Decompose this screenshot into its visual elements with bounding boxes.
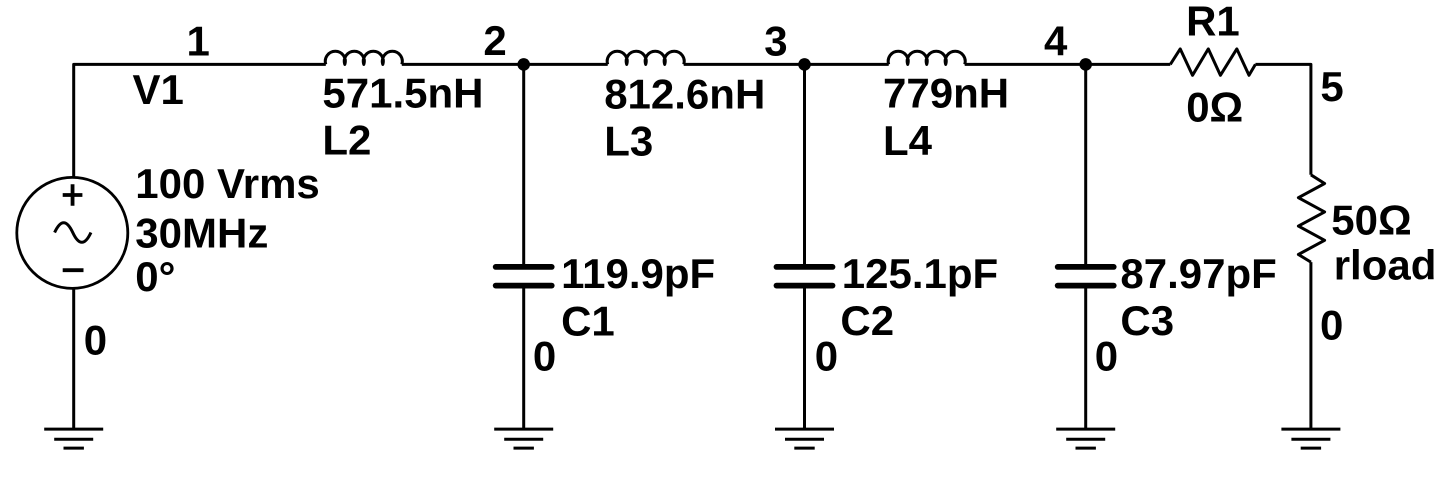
svg-text:5: 5 [1320,63,1343,110]
inductor L4 [888,51,965,64]
ground (C3) [1056,429,1115,448]
svg-text:779nH: 779nH [883,70,1009,117]
capacitor C3 plates [1058,267,1114,286]
svg-text:C1: C1 [561,298,615,345]
ground (rload) [1281,429,1340,448]
svg-text:0: 0 [1320,301,1343,348]
svg-text:812.6nH: 812.6nH [604,71,765,118]
capacitor C2 plates [777,267,833,286]
voltage source minus sign [63,268,84,272]
wire node 3 to C2 [803,64,806,267]
ground (C1) [494,429,553,448]
svg-text:0Ω: 0Ω [1186,84,1243,131]
inductor L3 [607,51,684,64]
svg-text:C3: C3 [1120,297,1174,344]
svg-text:0: 0 [1095,332,1118,379]
resistor rload [1298,175,1324,262]
capacitor C1 plates [496,267,552,286]
voltage source V1 circle [17,177,128,288]
wire source to ground [72,288,75,429]
svg-text:1: 1 [187,18,210,65]
svg-text:50Ω: 50Ω [1331,197,1411,244]
svg-text:V1: V1 [133,66,184,113]
wire node 2 to C1 [522,64,525,267]
wire C1 to ground [522,286,525,429]
svg-text:R1: R1 [1186,0,1240,44]
svg-text:3: 3 [764,18,787,65]
wire node 4 to C3 [1084,64,1087,267]
wire top-left corner from source to L2 [74,64,326,178]
svg-text:0°: 0° [135,253,175,300]
wire L4 to R1 [965,63,1171,66]
svg-text:100 Vrms: 100 Vrms [135,160,319,207]
svg-text:L2: L2 [322,117,371,164]
svg-text:0: 0 [533,332,556,379]
wire L2 to L3 [402,63,608,66]
wire rload to ground [1309,262,1312,429]
ground (C2) [775,429,834,448]
svg-text:119.9pF: 119.9pF [561,250,715,297]
voltage source sine wave [55,223,91,243]
svg-text:L3: L3 [604,118,653,165]
svg-text:0: 0 [815,332,838,379]
svg-text:0: 0 [84,317,107,364]
junction dot node 2 [517,58,530,71]
svg-text:2: 2 [483,17,506,64]
ground (source) [44,429,103,448]
svg-text:rload: rload [1334,241,1437,288]
junction dot node 4 [1079,58,1092,71]
svg-text:4: 4 [1044,18,1068,65]
wire L3 to L4 [684,63,889,66]
inductor L2 [325,51,402,64]
resistor R1 [1170,49,1255,75]
svg-text:87.97pF: 87.97pF [1120,250,1276,297]
svg-text:L4: L4 [883,117,933,164]
wire R1 to node 5 corner [1255,64,1311,174]
voltage source plus sign [63,184,83,206]
svg-text:125.1pF: 125.1pF [842,250,998,297]
wire C3 to ground [1084,286,1087,429]
wire C2 to ground [803,286,806,429]
junction dot node 3 [798,58,811,71]
svg-text:C2: C2 [840,297,894,344]
svg-text:571.5nH: 571.5nH [322,70,483,117]
svg-text:30MHz: 30MHz [135,209,268,256]
